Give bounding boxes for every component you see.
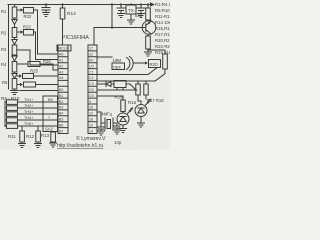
ground ZQ1 left (98, 131, 105, 135)
node VDD junctions (111, 3, 113, 28)
label R25 (30, 69, 39, 74)
label R6-R10 (1, 96, 20, 101)
diode VD1 (12, 18, 17, 28)
svg-text:R14 10к 1к: R14 10к 1к (155, 20, 170, 25)
wire +5V top rail (8, 4, 151, 6)
wire tap A3 (17, 63, 28, 65)
wire R15 top (97, 96, 123, 100)
label 10p (114, 140, 122, 145)
svg-text:R13: R13 (41, 133, 50, 138)
label R16 (128, 100, 137, 105)
label TH3 (24, 110, 34, 114)
IC U1 PIC16F84 label (62, 35, 89, 41)
resistor R4 680 (146, 5, 151, 21)
ground R12 (35, 144, 42, 148)
resistor R15 (121, 100, 125, 113)
svg-text:R5-R10 4,7к: R5-R10 4,7к (155, 8, 170, 13)
label TH2 (24, 104, 34, 108)
IC U1 MCLR wide cell (57, 45, 71, 51)
LED HL1 (117, 113, 129, 129)
resistor R1 (12, 5, 17, 21)
svg-text:12: 12 (89, 112, 93, 116)
resistor R21 (163, 54, 168, 74)
label R4 (1, 62, 7, 67)
wire buzzer row (97, 56, 112, 58)
resistor R2 (12, 28, 17, 40)
wire tap A0 arrow (17, 9, 21, 11)
resistor R14 (60, 5, 65, 46)
label R2 (1, 31, 7, 36)
svg-text:B7: B7 (59, 129, 63, 133)
svg-text:R23: R23 (23, 25, 31, 30)
svg-text:R15,R16 300: R15,R16 300 (155, 26, 170, 31)
wire VT2 row (97, 74, 148, 76)
svg-text:R14: R14 (67, 11, 76, 17)
label R24 (43, 59, 51, 64)
diode VD4 (12, 74, 17, 79)
svg-text:0V: 0V (89, 59, 94, 63)
resistor R4 (12, 62, 17, 74)
IC U1 left pin column (58, 45, 68, 134)
capacitor C3 (137, 5, 145, 14)
label R13 (41, 133, 50, 138)
crystal ZQ1 (101, 118, 117, 130)
transistor VT1 emitter arrow (148, 21, 151, 24)
node R14 junction (61, 3, 63, 5)
svg-text:R4: R4 (1, 62, 7, 67)
parts list right column (155, 2, 181, 55)
wire arrow to R20 (134, 62, 146, 64)
svg-text:ПЕК: ПЕК (113, 65, 122, 70)
svg-text:14: 14 (89, 129, 93, 133)
resistor R11 (20, 126, 25, 144)
transistor VT2 (148, 68, 157, 75)
ground DA1 (128, 20, 135, 24)
diode VD3 (12, 56, 17, 62)
wire B1 row (20, 90, 58, 92)
svg-text:B5: B5 (59, 118, 63, 122)
resistor R3 (12, 45, 17, 56)
svg-text:10: 10 (89, 123, 93, 127)
ground R19 (145, 52, 152, 56)
node 680 junction (147, 3, 149, 5)
ground C3 (138, 14, 145, 18)
ground R13 (50, 143, 57, 147)
svg-text:B6: B6 (59, 123, 63, 127)
LED HL2 (135, 105, 147, 124)
resistor R22 (24, 8, 34, 14)
wire VDD riser (94, 5, 141, 46)
IC U1 right pin column (88, 45, 97, 134)
node C3 junction (140, 3, 142, 5)
svg-text:C4: C4 (89, 88, 94, 92)
label R1 (1, 9, 7, 14)
svg-text:R15: R15 (115, 95, 124, 100)
resistor R23 (24, 30, 34, 36)
resistor R5 (12, 79, 17, 91)
svg-text:R5: R5 (2, 80, 8, 85)
svg-text:B0: B0 (48, 97, 54, 102)
wire OSC1 (97, 112, 101, 123)
capacitor C2 (117, 5, 125, 14)
wire C4 row (97, 89, 137, 91)
node C2 junction (120, 3, 122, 5)
svg-text:C2: C2 (89, 76, 94, 80)
transistor VT1 (141, 20, 156, 34)
wire tap B0 arrow (17, 84, 21, 86)
resistor R9 (5, 118, 43, 123)
svg-text:A1: A1 (59, 59, 63, 63)
wire tap A4 arrow (17, 75, 20, 77)
wire R26 to B0 (36, 84, 59, 86)
label buzzer (113, 58, 122, 70)
resistor R13 (51, 132, 56, 144)
LED HL1 arrows (128, 108, 133, 114)
svg-text:B0: B0 (59, 88, 63, 92)
svg-text:B4: B4 (59, 112, 63, 116)
resistor R8 (5, 112, 43, 117)
svg-text:R11: R11 (8, 134, 16, 139)
svg-text:R20: R20 (150, 62, 159, 67)
ground HL2 (138, 123, 145, 127)
svg-text:R22-R26 10: R22-R26 10 (155, 44, 170, 49)
wire R21 branch (148, 50, 165, 54)
label R17 R18 (147, 98, 164, 103)
resistor R7 (5, 106, 43, 111)
svg-text:B3: B3 (59, 106, 63, 110)
svg-text:TH1+: TH1+ (24, 98, 34, 102)
transistor VT3 (155, 74, 165, 81)
node rail arrow (150, 2, 155, 7)
ground C2 (118, 14, 125, 18)
label R3 (1, 47, 7, 52)
svg-text:C5: C5 (89, 94, 94, 98)
svg-text:© Lymarev.V: © Lymarev.V (76, 135, 106, 142)
label 680 (135, 13, 143, 18)
svg-text:R2: R2 (1, 31, 7, 36)
svg-text:10p: 10p (114, 140, 122, 145)
svg-text:SA2: SA2 (45, 127, 54, 132)
svg-text:PIC16F84A: PIC16F84A (62, 35, 89, 41)
label TH1 (24, 98, 34, 102)
wire diode row (97, 82, 114, 87)
resistor R24 (28, 62, 40, 67)
svg-text:R25: R25 (30, 69, 39, 74)
svg-text:16: 16 (89, 118, 93, 122)
relay K1 (114, 81, 135, 91)
label R23 (23, 25, 31, 30)
resistor R6 (5, 100, 43, 105)
svg-text:C0: C0 (89, 64, 94, 68)
wire R25 to A4 (34, 75, 59, 77)
svg-text:R1-R4 10к: R1-R4 10к (155, 2, 170, 7)
ground left chain (11, 91, 19, 95)
wire TR block left bus (4, 101, 6, 127)
svg-text:C1: C1 (89, 70, 94, 74)
ground HL1 (120, 129, 127, 133)
capacitor C6 (114, 123, 120, 130)
resistor R12 (36, 126, 41, 144)
label R20 box (149, 60, 161, 68)
label R22 (24, 14, 32, 19)
svg-text:R20,R21 1к: R20,R21 1к (155, 38, 170, 43)
resistor R19 (146, 34, 151, 52)
svg-text:R17,R18 300: R17,R18 300 (155, 32, 170, 37)
wire left bus (8, 5, 10, 90)
label R11 (8, 134, 16, 139)
wire VT3 row (97, 80, 155, 82)
label crystal 4MHz (101, 112, 112, 117)
svg-text:A0: A0 (59, 53, 63, 57)
label SA1 (45, 97, 54, 132)
svg-text:R26: R26 (43, 59, 51, 64)
wire tap A2 (17, 50, 58, 65)
label DA1 (128, 8, 134, 13)
ground R11 (19, 144, 26, 148)
switch SA1 block (43, 96, 58, 132)
capacitor C1 (42, 5, 50, 13)
svg-text:R11-R13 1к: R11-R13 1к (155, 14, 170, 19)
svg-text:19M: 19M (113, 58, 122, 63)
svg-text:TH3+: TH3+ (24, 110, 34, 114)
resistor R26 (24, 82, 36, 87)
svg-text:R12: R12 (26, 134, 35, 139)
svg-text:15: 15 (89, 106, 93, 110)
resistor R10 (5, 124, 43, 129)
svg-text:B1: B1 (59, 94, 63, 98)
label R15 (115, 95, 124, 100)
label TH4 (24, 116, 34, 120)
ground C1 (43, 13, 50, 17)
label R5 (2, 80, 8, 85)
buzzer HA1 (112, 57, 133, 71)
wire R24 to A3 (40, 64, 58, 70)
label TH5 (24, 122, 34, 126)
svg-text:4МГц: 4МГц (101, 112, 112, 117)
svg-text:R1: R1 (1, 9, 7, 14)
svg-text:TH4+: TH4+ (24, 116, 34, 120)
svg-text:TX: TX (128, 8, 134, 13)
svg-text:TH2+: TH2+ (24, 104, 34, 108)
svg-text:17: 17 (89, 47, 93, 51)
svg-text:MCLR: MCLR (58, 47, 69, 51)
svg-text:A4: A4 (59, 76, 63, 80)
svg-text:R16: R16 (128, 100, 137, 105)
wire R22 to A0 (34, 10, 59, 54)
node TX junction (130, 3, 132, 5)
svg-text:TH5+: TH5+ (24, 122, 34, 126)
ground ZQ1 right (114, 130, 121, 134)
svg-text:R3: R3 (1, 47, 7, 52)
label R14 (67, 11, 76, 17)
svg-text:R19 510 1к: R19 510 1к (155, 50, 170, 55)
svg-text:9: 9 (89, 100, 91, 104)
IC U1 left pin labels (58, 47, 69, 134)
LED HL2 arrows (146, 100, 151, 106)
label R12 (26, 134, 35, 139)
resistor R25 (23, 74, 34, 79)
diode VD2 (12, 40, 17, 46)
resistor R18 (144, 81, 148, 99)
svg-text:B2: B2 (59, 100, 63, 104)
svg-text:C3: C3 (89, 82, 94, 86)
node C1 junction (45, 3, 47, 5)
watermark copyright (57, 135, 106, 149)
svg-text:A3: A3 (59, 70, 63, 74)
wire R23 to A1 (34, 32, 59, 60)
capacitor C5 (98, 123, 104, 131)
svg-text:o2: o2 (89, 53, 93, 57)
wire tap A1 arrow (17, 31, 21, 33)
svg-text:http://radiotehn.h1.ru: http://radiotehn.h1.ru (57, 143, 103, 149)
svg-text:R22: R22 (24, 14, 32, 19)
regulator DA1 (126, 5, 136, 20)
resistor R17 (136, 81, 141, 105)
IC U1 right pin labels (89, 47, 94, 134)
svg-text:680: 680 (135, 13, 143, 18)
svg-text:A2: A2 (59, 64, 63, 68)
